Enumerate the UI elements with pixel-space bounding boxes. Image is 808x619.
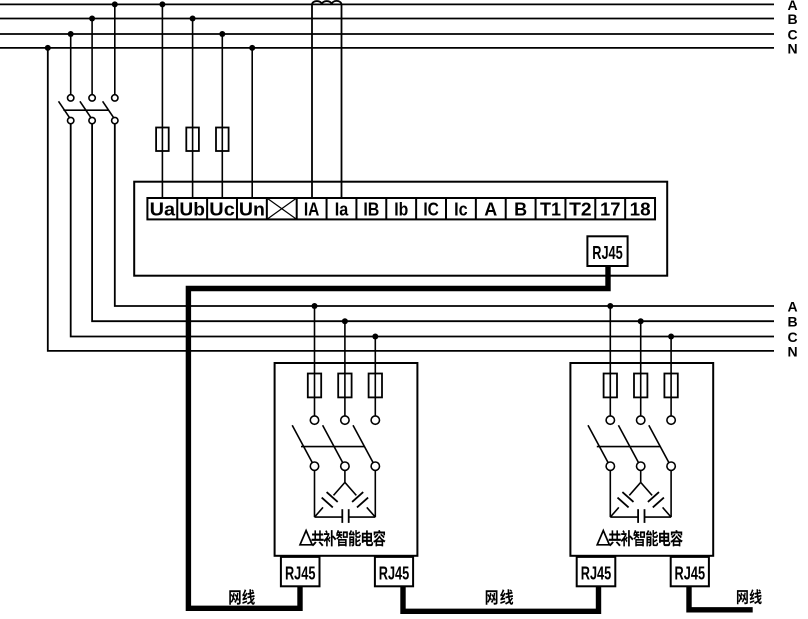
- terminal separator 2: [206, 198, 208, 219]
- contactor unit1 pole A blade: [292, 425, 312, 462]
- wire Uc (phase C) down to terminal block: [221, 34, 223, 198]
- svg-text:Ia: Ia: [335, 200, 349, 220]
- terminal separator 3: [236, 198, 238, 219]
- fuse unit2 phase C: [664, 374, 677, 398]
- junction dot phase B to switch QS: [89, 16, 95, 22]
- contactor unit1 pole A upper contact: [310, 416, 318, 424]
- junction dot unit1 phase C tap: [372, 334, 378, 340]
- controller box U1: [134, 182, 667, 276]
- wire Ua (phase A) down to terminal block: [161, 4, 163, 198]
- terminal separator 16: [624, 198, 626, 219]
- switch QS pole 1 blade: [59, 101, 70, 118]
- svg-text:Ub: Ub: [179, 200, 205, 220]
- svg-text:Ib: Ib: [394, 200, 408, 220]
- terminal separator 10: [445, 198, 447, 219]
- fuse unit1 phase B: [338, 374, 351, 398]
- wire unit2 pole A down to delta: [609, 470, 611, 517]
- terminal strip outline: [147, 198, 655, 219]
- switch QS pole 3 blade: [103, 101, 114, 118]
- junction dot Un (neutral) tap: [249, 45, 255, 51]
- contactor unit2 pole A upper contact: [606, 416, 614, 424]
- svg-text:B: B: [788, 11, 798, 27]
- terminal separator 13: [535, 198, 537, 219]
- fuse unit2 phase B: [634, 374, 647, 398]
- terminal separator 14: [564, 198, 566, 219]
- switch QS pole 3 upper contact: [112, 95, 118, 101]
- wire Ub (phase B) down to terminal block: [192, 19, 194, 199]
- contactor unit1 pole A lower contact: [310, 462, 318, 470]
- wire unit1 phase B drop: [344, 321, 346, 416]
- contactor unit2 linkage bar: [597, 446, 660, 448]
- RJ45 port unit1 left: [281, 557, 320, 586]
- wire neutral N down and right to lower bus N: [48, 48, 774, 351]
- svg-text:A: A: [788, 298, 798, 314]
- terminal separator 5: [296, 198, 298, 219]
- terminal separator 8: [385, 198, 387, 219]
- contactor unit2 pole C lower contact: [667, 462, 675, 470]
- terminal cell X (crossed, unused): [267, 198, 297, 219]
- svg-text:18: 18: [630, 200, 651, 220]
- svg-text:IA: IA: [304, 200, 320, 220]
- fuse FU1 on Ua (phase A) wire: [156, 128, 169, 152]
- switch QS pole 3 lower contact: [112, 117, 118, 123]
- junction dot phase C to switch QS: [68, 31, 74, 37]
- capacitor unit box unit2: [570, 363, 713, 556]
- cable label 网线 (left): [229, 589, 255, 605]
- wire phase B tap down to switch QS: [91, 19, 93, 95]
- wire CT secondary to terminal IA: [311, 4, 313, 198]
- contactor unit1 pole B blade: [323, 425, 343, 462]
- svg-text:T1: T1: [540, 200, 561, 220]
- junction dot phase A to switch QS: [112, 1, 118, 7]
- svg-text:RJ45: RJ45: [592, 243, 623, 263]
- svg-text:RJ45: RJ45: [581, 564, 612, 584]
- wire unit1 phase A drop: [314, 306, 316, 416]
- capacitor unit 2 (right): [570, 303, 713, 586]
- wire unit2 phase B drop: [640, 321, 642, 416]
- wire CT secondary to terminal Ia: [341, 4, 343, 198]
- terminal separator 9: [415, 198, 417, 219]
- switch QS pole 1 upper contact: [68, 95, 74, 101]
- terminal separator 12: [505, 198, 507, 219]
- bus line N (top): [0, 47, 774, 49]
- svg-text:Uc: Uc: [209, 200, 235, 220]
- capacitor unit1 C-CA (bottom of delta): [315, 516, 343, 518]
- contactor unit2 pole B blade: [618, 425, 638, 462]
- svg-text:N: N: [788, 343, 798, 359]
- junction dot Ua (phase A) tap: [159, 1, 165, 7]
- contactor unit1 pole C upper contact: [371, 416, 379, 424]
- contactor unit2 pole A blade: [588, 425, 608, 462]
- terminal separator 15: [594, 198, 596, 219]
- svg-text:Ic: Ic: [454, 200, 468, 220]
- RJ45 port on controller: [587, 236, 627, 266]
- contactor unit2 pole B lower contact: [637, 462, 645, 470]
- network cable unit1-right to unit2-left: [403, 586, 599, 611]
- junction dot unit2 phase B tap: [638, 318, 644, 324]
- network cable unit2-right outgoing: [689, 586, 753, 610]
- label unit2: delta common-compensation smart capacitor: [597, 530, 683, 546]
- wire unit1 pole C down to delta: [374, 470, 376, 517]
- fuse FU3 on Uc (phase C) wire: [216, 128, 229, 152]
- svg-text:N: N: [788, 41, 798, 57]
- bus line B (top): [0, 18, 774, 20]
- wire unit1 phase C drop: [374, 337, 376, 416]
- svg-text:B: B: [788, 314, 798, 330]
- contactor unit1 linkage bar: [301, 446, 364, 448]
- wire unit1 pole B down to delta apex: [344, 470, 346, 482]
- fuse unit1 phase C: [369, 374, 382, 398]
- terminal separator 7: [355, 198, 357, 219]
- terminal separator 6: [326, 198, 328, 219]
- switch QS pole 2 blade: [80, 101, 91, 118]
- junction dot unit2 phase C tap: [668, 334, 674, 340]
- svg-text:RJ45: RJ45: [675, 564, 706, 584]
- wire phase A tap down to switch QS: [114, 4, 116, 94]
- junction dot unit1 phase A tap: [312, 303, 318, 309]
- wire phase C tap down to switch QS: [70, 34, 72, 95]
- capacitor unit1 C-AB (left side of delta): [334, 482, 345, 495]
- capacitor unit box unit1: [275, 363, 418, 556]
- terminal separator 1: [176, 198, 178, 219]
- wire unit2 pole C down to delta: [670, 470, 672, 517]
- contactor unit2 pole B upper contact: [637, 416, 645, 424]
- capacitor unit 1 (left): [275, 303, 418, 586]
- RJ45 port unit2 left: [577, 557, 616, 586]
- svg-text:T2: T2: [569, 200, 592, 220]
- RJ45 port unit1 right: [375, 557, 413, 586]
- svg-text:RJ45: RJ45: [379, 564, 410, 584]
- cable label 网线 (middle): [486, 589, 513, 605]
- fuse FU2 on Ub (phase B) wire: [186, 128, 199, 152]
- capacitor unit1 C-BC (right side of delta): [345, 482, 356, 495]
- contactor unit2 pole A lower contact: [606, 462, 614, 470]
- network cable from controller RJ45 to capacitor unit 1: [188, 266, 608, 608]
- bus line A (top): [0, 3, 774, 5]
- terminal separator 4: [266, 198, 268, 219]
- switch QS linkage bar: [63, 109, 108, 111]
- svg-text:IC: IC: [423, 200, 439, 220]
- capacitor unit2 C-AB (left side of delta): [629, 482, 640, 495]
- svg-text:B: B: [514, 200, 527, 220]
- contactor unit1 pole C lower contact: [371, 462, 379, 470]
- terminal separator 11: [475, 198, 477, 219]
- contactor unit1 pole B upper contact: [341, 416, 349, 424]
- current transformer CT on phase A: [312, 1, 342, 5]
- capacitor unit2 C-CA (bottom of delta): [610, 516, 638, 518]
- junction dot Ub (phase B) tap: [190, 16, 196, 22]
- svg-text:17: 17: [600, 200, 621, 220]
- junction dot unit2 phase A tap: [607, 303, 613, 309]
- RJ45 port unit2 right: [671, 557, 709, 586]
- contactor unit1 pole C blade: [353, 425, 373, 462]
- junction dot Uc (phase C) tap: [219, 31, 225, 37]
- contactor unit2 pole C blade: [649, 425, 669, 462]
- cable label 网线 (right): [737, 589, 762, 604]
- switch QS pole 1 lower contact: [68, 117, 74, 123]
- bus line C (top): [0, 33, 774, 35]
- junction dot unit1 phase B tap: [342, 318, 348, 324]
- wire Un (neutral) down to terminal block: [251, 48, 253, 198]
- fuse unit2 phase A: [604, 374, 617, 398]
- wire unit2 phase A drop: [609, 306, 611, 416]
- contactor unit2 pole C upper contact: [667, 416, 675, 424]
- svg-text:RJ45: RJ45: [285, 564, 316, 584]
- svg-text:Ua: Ua: [150, 200, 177, 220]
- capacitor unit2 C-BC (right side of delta): [641, 482, 652, 495]
- wire switch pole A down, elbow to lower bus A: [115, 124, 774, 306]
- label unit1: delta common-compensation smart capacitor: [300, 530, 386, 546]
- svg-text:Un: Un: [239, 200, 265, 220]
- contactor unit1 pole B lower contact: [341, 462, 349, 470]
- wire switch pole B down, elbow to lower bus B: [92, 124, 774, 321]
- fuse unit1 phase A: [308, 374, 321, 398]
- svg-text:IB: IB: [363, 200, 379, 220]
- wire switch pole C down, elbow to lower bus C: [71, 124, 774, 337]
- switch QS pole 2 upper contact: [89, 95, 95, 101]
- wire unit1 pole A down to delta: [314, 470, 316, 517]
- switch QS pole 2 lower contact: [89, 117, 95, 123]
- wire unit2 phase C drop: [670, 337, 672, 416]
- wire unit2 pole B down to delta apex: [640, 470, 642, 482]
- svg-text:A: A: [484, 200, 497, 220]
- junction dot neutral N tap: [45, 45, 51, 51]
